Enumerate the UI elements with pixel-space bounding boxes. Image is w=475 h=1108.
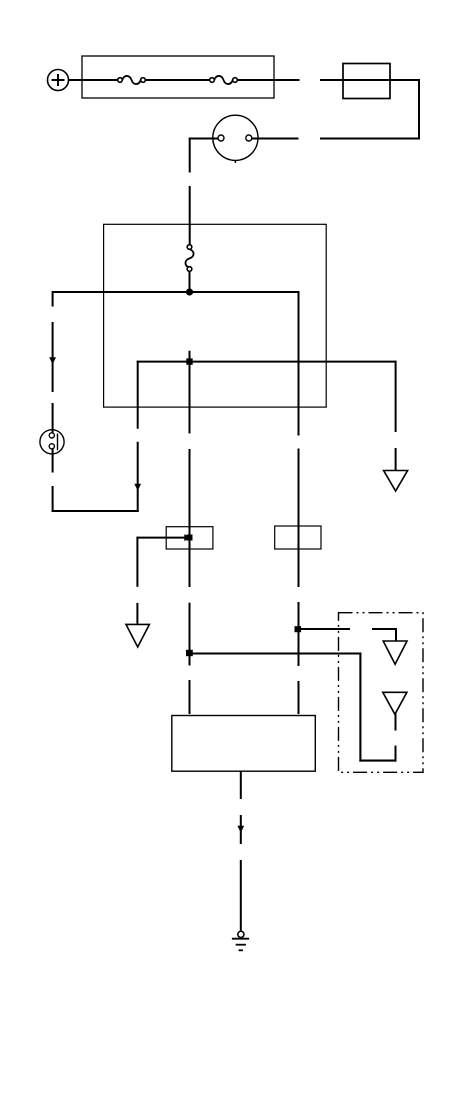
wire down to switch box (seg 1) xyxy=(189,138,191,173)
tail wire seg2 xyxy=(240,815,242,844)
bottom left horizontal wire xyxy=(52,510,139,512)
left branch vertical seg3 xyxy=(52,403,54,433)
wire below connector seg1 xyxy=(52,449,54,473)
left branch vertical seg2 xyxy=(52,322,54,392)
wire up to T3 seg1 xyxy=(395,746,397,762)
right branch vertical seg2 xyxy=(298,449,300,588)
connector C1 xyxy=(213,115,258,163)
wire connector to corner xyxy=(189,138,221,140)
node junction 2 xyxy=(186,650,193,656)
stub wire to node xyxy=(137,537,186,539)
wire right to connector (seg 2) xyxy=(252,138,299,140)
wire down to switch box (seg 2) xyxy=(189,186,191,244)
dash-dot boundary box xyxy=(339,613,424,773)
ground triangle T3 xyxy=(383,692,407,714)
fusible link F1 xyxy=(118,76,146,84)
wire up to T3 seg2 xyxy=(395,714,397,731)
wire between fuses xyxy=(146,79,210,81)
ground branch right seg2 xyxy=(395,448,397,476)
wire dash to relay xyxy=(320,79,420,81)
module box xyxy=(172,716,315,772)
wire below connector seg2 xyxy=(52,486,54,512)
tail wire seg1 xyxy=(240,771,242,799)
node junction 3 xyxy=(295,626,302,632)
ground bar 1 xyxy=(232,938,249,940)
inline connector rect A xyxy=(166,527,213,549)
middle vertical seg B xyxy=(189,449,191,587)
wire to G3 seg1 xyxy=(298,628,351,630)
fusible link F3 vertical xyxy=(185,245,193,272)
battery B+ xyxy=(48,70,69,91)
arrow right A3 xyxy=(184,534,191,541)
component box xyxy=(104,224,327,407)
heavy wire down x360.4 xyxy=(359,653,361,762)
stub corner vertical seg2 xyxy=(136,603,138,625)
ground triangle G3 xyxy=(383,641,407,664)
ground branch right seg1 xyxy=(395,361,397,432)
wire G3 drop xyxy=(395,628,397,642)
heavy wire right y653.5 xyxy=(190,652,362,654)
mid-left vertical seg2 xyxy=(137,442,139,512)
middle vertical seg D xyxy=(189,680,191,714)
mid-left vertical seg1 xyxy=(137,361,139,429)
node junction 1 xyxy=(186,288,193,295)
arrow down A1 xyxy=(49,357,56,364)
right branch vertical seg1 xyxy=(298,291,300,436)
node junction square xyxy=(186,358,192,364)
right branch vertical seg3 xyxy=(298,602,300,666)
wire to G3 seg2 xyxy=(372,628,396,630)
ground bar 2 xyxy=(236,944,246,946)
ground triangle G1 xyxy=(384,471,408,492)
left branch vertical seg1 xyxy=(52,291,54,307)
fuse box xyxy=(82,56,274,98)
node dot on rect A xyxy=(187,535,193,541)
bus wire y292 xyxy=(53,291,299,293)
connector C2 xyxy=(40,430,64,454)
ground bar 3 xyxy=(239,949,243,951)
wire fuse box to relay xyxy=(238,79,300,81)
stub corner vertical seg1 xyxy=(136,537,138,587)
ground terminal circle xyxy=(238,931,244,937)
tail wire seg3 xyxy=(240,860,242,931)
wire down from relay xyxy=(418,79,420,139)
wire battery to fuse F1 xyxy=(69,79,119,81)
arrow down A4 xyxy=(237,826,244,833)
fusible link F2 xyxy=(210,76,238,84)
wire right to connector (seg 1) xyxy=(320,138,420,140)
ground triangle G2 xyxy=(126,624,149,647)
inner horizontal wire y361.6 xyxy=(137,361,396,363)
right branch vertical seg4 xyxy=(298,681,300,714)
inline connector rect B xyxy=(275,526,321,549)
heavy wire bottom y760 xyxy=(359,760,396,762)
wire switch to node 1 xyxy=(189,271,191,292)
middle vertical seg A xyxy=(189,351,191,434)
middle vertical seg C xyxy=(189,603,191,666)
relay box xyxy=(343,64,390,99)
arrow down A2 xyxy=(134,484,141,491)
